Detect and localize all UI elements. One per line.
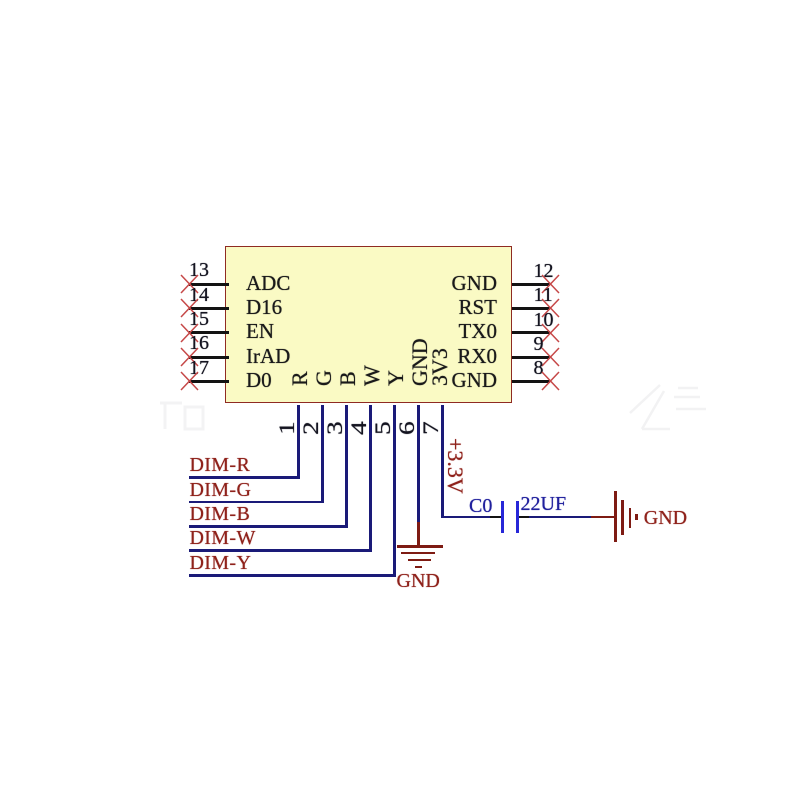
pin 3 label B (vertical) (337, 371, 359, 386)
pin 15 label EN (246, 321, 274, 342)
ground symbol GND (pin6) bar4 (415, 566, 423, 569)
ground symbol GND (right) bar1 (614, 491, 617, 542)
wire pin2 vertical (321, 405, 324, 504)
pin 8 label GND (400, 370, 497, 391)
wire DIM-Y horizontal (189, 574, 396, 577)
pin 1 label R (vertical) (289, 371, 311, 386)
ground symbol GND (right) bar4 (635, 514, 638, 520)
pin 17 label D0 (246, 370, 272, 391)
no-connect X pin 15 (180, 323, 199, 343)
wire DIM-B horizontal (189, 525, 348, 528)
pin 3 number (vertical) (324, 422, 346, 436)
ground symbol GND (pin6) bar3 (408, 559, 431, 562)
pin 17 number (189, 358, 209, 378)
pin 9 wire (512, 356, 550, 359)
power net label +3.3V (vertical) (444, 438, 466, 494)
pin 13 number (189, 260, 209, 280)
net label DIM-G (190, 480, 252, 500)
ground stub pin6 (417, 522, 420, 546)
ground label GND (pin6) (397, 571, 440, 591)
pin 5 number (vertical) (372, 422, 394, 436)
net label DIM-Y (190, 553, 252, 573)
pin 17 wire (189, 380, 229, 383)
wire pin7 vertical (441, 405, 444, 519)
no-connect X pin 8 (541, 371, 560, 391)
pin 14 number (189, 285, 209, 305)
pin 8 number (534, 358, 544, 378)
pin 11 number (534, 285, 553, 305)
capacitor C0 label (469, 496, 492, 516)
pin 1 number (vertical) (276, 422, 298, 436)
ground symbol GND (right) bar2 (621, 500, 624, 535)
capacitor C0 value 22UF (521, 494, 567, 514)
pin 7 number (vertical) (420, 422, 442, 436)
wire pin5 vertical (393, 405, 396, 577)
ground label GND (right) (644, 508, 687, 528)
ground symbol GND (right) bar3 (629, 508, 632, 529)
pin 10 wire (512, 331, 550, 334)
net label DIM-W (190, 528, 256, 548)
ground stub right (591, 516, 615, 519)
pin 16 label IrAD (246, 346, 290, 367)
pin 8 wire (512, 380, 550, 383)
pin 9 number (534, 334, 544, 354)
wire pin7 horizontal to capacitor (441, 516, 490, 519)
pin 15 number (189, 309, 209, 329)
no-connect X pin 10 (541, 323, 560, 343)
pin 11 wire (512, 307, 550, 310)
pin 10 label TX0 (400, 321, 497, 342)
watermark right (612, 383, 712, 435)
wire capacitor to ground (529, 516, 591, 519)
no-connect X pin 11 (541, 298, 560, 318)
no-connect X pin 16 (180, 347, 199, 367)
pin 16 wire (189, 356, 229, 359)
wire DIM-W horizontal (189, 549, 372, 552)
no-connect X pin 9 (541, 347, 560, 367)
pin 13 label ADC (246, 273, 290, 294)
wire DIM-G horizontal (189, 501, 324, 504)
ground symbol GND (pin6) bar1 (397, 545, 443, 548)
net label DIM-B (190, 504, 251, 524)
no-connect X pin 17 (180, 371, 199, 391)
no-connect X pin 13 (180, 274, 199, 294)
pin 13 wire (189, 283, 229, 286)
wire pin3 vertical (345, 405, 348, 528)
pin 4 label W (vertical) (361, 365, 383, 386)
pin 7 label 3V3 (vertical) (429, 348, 451, 386)
pin 6 number (vertical) (396, 422, 418, 436)
pin 11 label RST (400, 297, 497, 318)
net label DIM-R (190, 455, 251, 475)
wire pin4 vertical (369, 405, 372, 552)
pin 14 label D16 (246, 297, 282, 318)
pin 12 label GND (400, 273, 497, 294)
capacitor C0 plate left (501, 501, 504, 533)
no-connect X pin 12 (541, 274, 560, 294)
capacitor C0 left pin (black) (490, 516, 501, 519)
pin 2 number (vertical) (300, 422, 322, 436)
pin 12 wire (512, 283, 550, 286)
capacitor C0 plate right (516, 501, 519, 533)
pin 9 label RX0 (400, 346, 497, 367)
pin 14 wire (189, 307, 229, 310)
wire pin1 vertical (297, 405, 300, 479)
wire DIM-R horizontal (189, 476, 300, 479)
pin 6 label GND (vertical) (409, 338, 431, 386)
pin 10 number (534, 310, 554, 330)
watermark left (155, 395, 225, 435)
pin 16 number (189, 333, 209, 353)
no-connect X pin 14 (180, 298, 199, 318)
IC U1 body (225, 246, 512, 404)
wire pin6 vertical (417, 405, 420, 523)
pin 2 label G (vertical) (313, 370, 335, 386)
pin 5 label Y (vertical) (385, 370, 407, 386)
capacitor C0 right pin (black) (519, 516, 529, 519)
pin 15 wire (189, 331, 229, 334)
ground symbol GND (pin6) bar2 (401, 552, 436, 555)
pin 12 number (534, 261, 554, 281)
pin 4 number (vertical) (348, 422, 370, 436)
